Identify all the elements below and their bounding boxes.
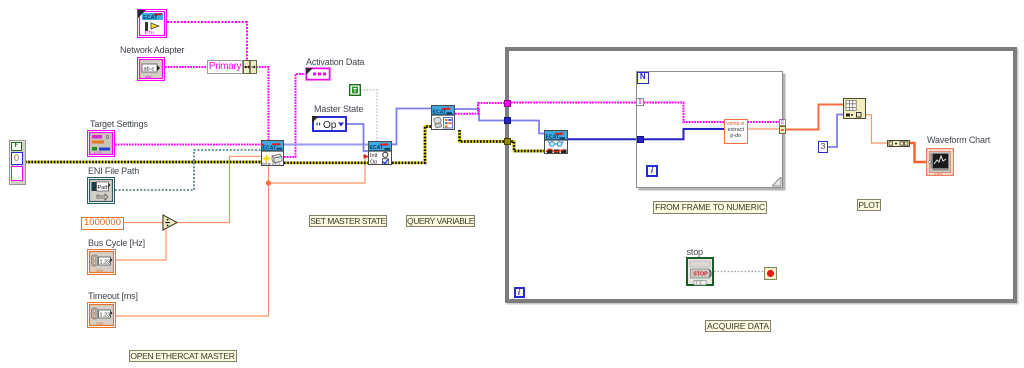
- tunnel: magenta on while loop left: [504, 100, 511, 107]
- wire: pink dashed Network Adapter to Primary: [165, 66, 208, 68]
- node: select/concat strings: [243, 60, 257, 74]
- node: Read PDO: [544, 130, 568, 154]
- label: stop: [687, 247, 703, 257]
- svg-text:T: T: [353, 87, 357, 94]
- node: Open EtherCAT Master: [261, 140, 284, 166]
- tunnel: orange on for loop right: [779, 126, 787, 134]
- i terminal of while loop: [514, 287, 525, 298]
- constant: Op enum: [312, 116, 347, 132]
- label box: SET MASTER STATE: [309, 215, 387, 227]
- label box: OPEN ETHERCAT MASTER: [129, 350, 237, 363]
- wire: pink dashed inside loop to For loop tunnel: [508, 102, 637, 104]
- wire: dotted stop button to loop condition: [714, 271, 764, 273]
- wire: pink dashed Target Settings to Open node: [115, 144, 261, 146]
- error cluster: 0 numeric: [11, 152, 23, 165]
- wire: orange extract output to right tunnel: [748, 128, 780, 130]
- svg-text:abc: abc: [145, 75, 153, 80]
- control: Timeout numeric: [87, 302, 116, 328]
- label: Target Settings: [90, 119, 148, 129]
- i terminal of for loop: [646, 165, 658, 177]
- svg-text:DBL: DBL: [96, 269, 105, 274]
- label: Network Adapter: [120, 45, 184, 55]
- svg-text:Path: Path: [98, 185, 109, 191]
- wire: pink dashed Open node output to Activation Data indicator: [284, 74, 305, 157]
- node: Query Variable: [431, 105, 455, 130]
- wire: blue Op enum to Set node: [347, 124, 368, 151]
- junction: orange solder dot: [266, 180, 271, 185]
- wire: blue Set node output up to Query node: [392, 109, 431, 145]
- label box: PLOT: [857, 199, 881, 212]
- wire: pink dashed Query output into while loop: [455, 103, 508, 114]
- wire: blue Read node output to For loop tunnel: [568, 138, 640, 140]
- label: Waveform Chart: [927, 135, 990, 145]
- svg-text:ECAT: ECAT: [433, 110, 448, 116]
- label: Bus Cycle [Hz]: [88, 238, 145, 248]
- wire: orange 1000000 to divide: [124, 222, 163, 224]
- svg-text:ECAT: ECAT: [370, 145, 385, 151]
- wire: error Open node to Set node: [284, 161, 368, 164]
- node: Set Master State: [368, 141, 392, 165]
- wire: pink dashed select node output down to Open node top: [256, 67, 269, 140]
- svg-text:Op: Op: [323, 120, 337, 131]
- tunnel: olive on while loop left: [504, 138, 511, 145]
- control: Bus Cycle numeric: [87, 249, 116, 275]
- svg-text:c??: c??: [94, 151, 102, 156]
- svg-text:0: 0: [106, 135, 109, 141]
- constant: 1000000: [81, 217, 124, 230]
- coercion arrow: red arrow at Set node Init input: [364, 154, 370, 159]
- wire: blue 3 constant to Index Array: [828, 115, 843, 148]
- tunnel: pink indexing on for loop left: [636, 98, 644, 106]
- label box: QUERY VARIABLE: [406, 215, 475, 227]
- svg-text:STOP: STOP: [693, 272, 708, 278]
- wire: error Query node down and into while loop: [460, 130, 512, 142]
- while loop ACQUIRE DATA frame: [505, 47, 1017, 303]
- label: Timeout [ms]: [88, 291, 138, 301]
- indicator: Waveform Chart terminal: [926, 148, 954, 176]
- constant: 3: [818, 141, 828, 153]
- wire: orange Index Array to converter: [866, 115, 888, 143]
- control: stop button: [686, 257, 714, 286]
- control: ENI File Path: [87, 177, 115, 204]
- wire: orange converter to Waveform Chart: [910, 143, 926, 162]
- svg-text:ETH: ETH: [145, 30, 154, 35]
- constant: T boolean: [349, 84, 361, 96]
- svg-text:1.23: 1.23: [100, 313, 111, 319]
- tunnel: blue on for loop left: [637, 136, 644, 143]
- wire: error Set node to Query node: [392, 127, 431, 163]
- svg-text:Init: Init: [370, 153, 378, 159]
- wire: pink dotted from session icon constant to select node top: [167, 22, 247, 61]
- label box: FROM FRAME TO NUMERIC: [653, 201, 767, 214]
- node: extract pdo subVI: [724, 119, 748, 144]
- wire: orange divide output to Open node bus-cycle input: [177, 156, 261, 222]
- error cluster: empty string: [11, 166, 23, 181]
- for loop frame: [636, 71, 783, 188]
- node: Index Array: [843, 98, 866, 119]
- svg-text:T F: T F: [696, 281, 703, 286]
- wire: pink dashed inside For loop to extract node: [641, 103, 724, 123]
- wire: error inside loop to Read PDO node: [508, 142, 544, 152]
- wire: green dotted T constant to Set node top: [360, 90, 377, 141]
- wire: orange Bus Cycle to divide bottom: [116, 229, 166, 260]
- svg-text:ECAT: ECAT: [263, 146, 278, 152]
- label: ENI File Path: [88, 166, 139, 176]
- wire: blue inside loop to Read node: [508, 121, 544, 134]
- wire: blue Query output into while loop: [455, 109, 508, 121]
- tunnel: blue on while loop left: [504, 117, 511, 124]
- tunnel: pink indexing on for loop right: [779, 119, 787, 127]
- wire: error cluster constant to Open node (error in): [25, 161, 261, 164]
- label box: ACQUIRE DATA: [705, 320, 771, 332]
- control: Target Settings cluster: [87, 130, 115, 157]
- wire: master ref lavender Open node to Set node: [284, 144, 368, 146]
- wire: orange from For loop tunnel to Index Array: [785, 105, 843, 130]
- for loop fold corner: [772, 177, 782, 187]
- constant: error in cluster: [9, 140, 26, 185]
- svg-text:ECAT: ECAT: [143, 15, 158, 21]
- N terminal of for loop: [637, 72, 650, 84]
- node: convert to dynamic data: [887, 140, 910, 147]
- wire: teal path ENI File Path to Open node: [115, 150, 261, 190]
- svg-text:DBL: DBL: [96, 322, 105, 327]
- svg-text:ECAT: ECAT: [546, 135, 561, 141]
- svg-text:WHe CFG: WHe CFG: [262, 161, 280, 166]
- svg-text:1.23: 1.23: [100, 260, 111, 266]
- svg-text:DBL: DBL: [935, 172, 944, 177]
- wire: blue inside For loop to extract node: [641, 129, 724, 139]
- svg-text:Op: Op: [370, 159, 377, 165]
- constant: Primary string: [207, 60, 243, 74]
- error cluster: F boolean: [11, 142, 22, 151]
- session icon constant: [137, 9, 167, 38]
- label: Activation Data: [306, 57, 364, 67]
- wire: orange Timeout up into Open node bottom: [116, 166, 269, 316]
- wire: pink dashed extract output to right tunnel: [748, 121, 780, 123]
- terminal: loop condition: [764, 267, 777, 280]
- node: divide: [162, 214, 179, 231]
- wire: orange branch from timeout junction to Set node Init input: [269, 157, 369, 183]
- indicator: Activation Data: [305, 67, 331, 81]
- label: Master State: [314, 104, 363, 114]
- svg-text:ab-c: ab-c: [144, 67, 155, 73]
- control: Network Adapter (string): [137, 57, 165, 81]
